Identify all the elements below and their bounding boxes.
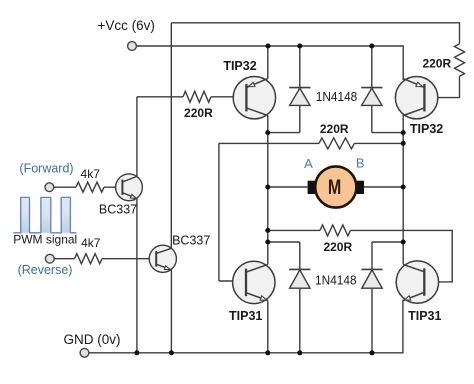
- svg-text:TIP32: TIP32: [410, 122, 443, 136]
- svg-text:(Reverse): (Reverse): [18, 263, 73, 277]
- svg-text:GND (0v): GND (0v): [64, 332, 121, 347]
- svg-text:220R: 220R: [323, 240, 352, 254]
- svg-text:+Vcc (6v): +Vcc (6v): [98, 18, 155, 33]
- svg-text:TIP32: TIP32: [223, 59, 256, 73]
- svg-text:BC337: BC337: [99, 203, 137, 217]
- svg-text:220R: 220R: [184, 106, 213, 120]
- svg-text:TIP31: TIP31: [229, 309, 262, 323]
- svg-text:(Forward): (Forward): [19, 162, 73, 176]
- svg-text:220R: 220R: [320, 122, 349, 136]
- svg-text:4k7: 4k7: [81, 236, 101, 250]
- svg-text:TIP31: TIP31: [408, 309, 441, 323]
- svg-text:220R: 220R: [422, 56, 451, 70]
- svg-text:PWM signal: PWM signal: [13, 233, 77, 247]
- svg-text:1N4148: 1N4148: [316, 89, 358, 104]
- svg-text:B: B: [356, 156, 365, 171]
- svg-text:M: M: [328, 175, 341, 199]
- svg-text:BC337: BC337: [172, 234, 210, 248]
- svg-text:4k7: 4k7: [81, 167, 101, 181]
- svg-text:1N4148: 1N4148: [315, 273, 357, 288]
- svg-text:A: A: [304, 156, 313, 171]
